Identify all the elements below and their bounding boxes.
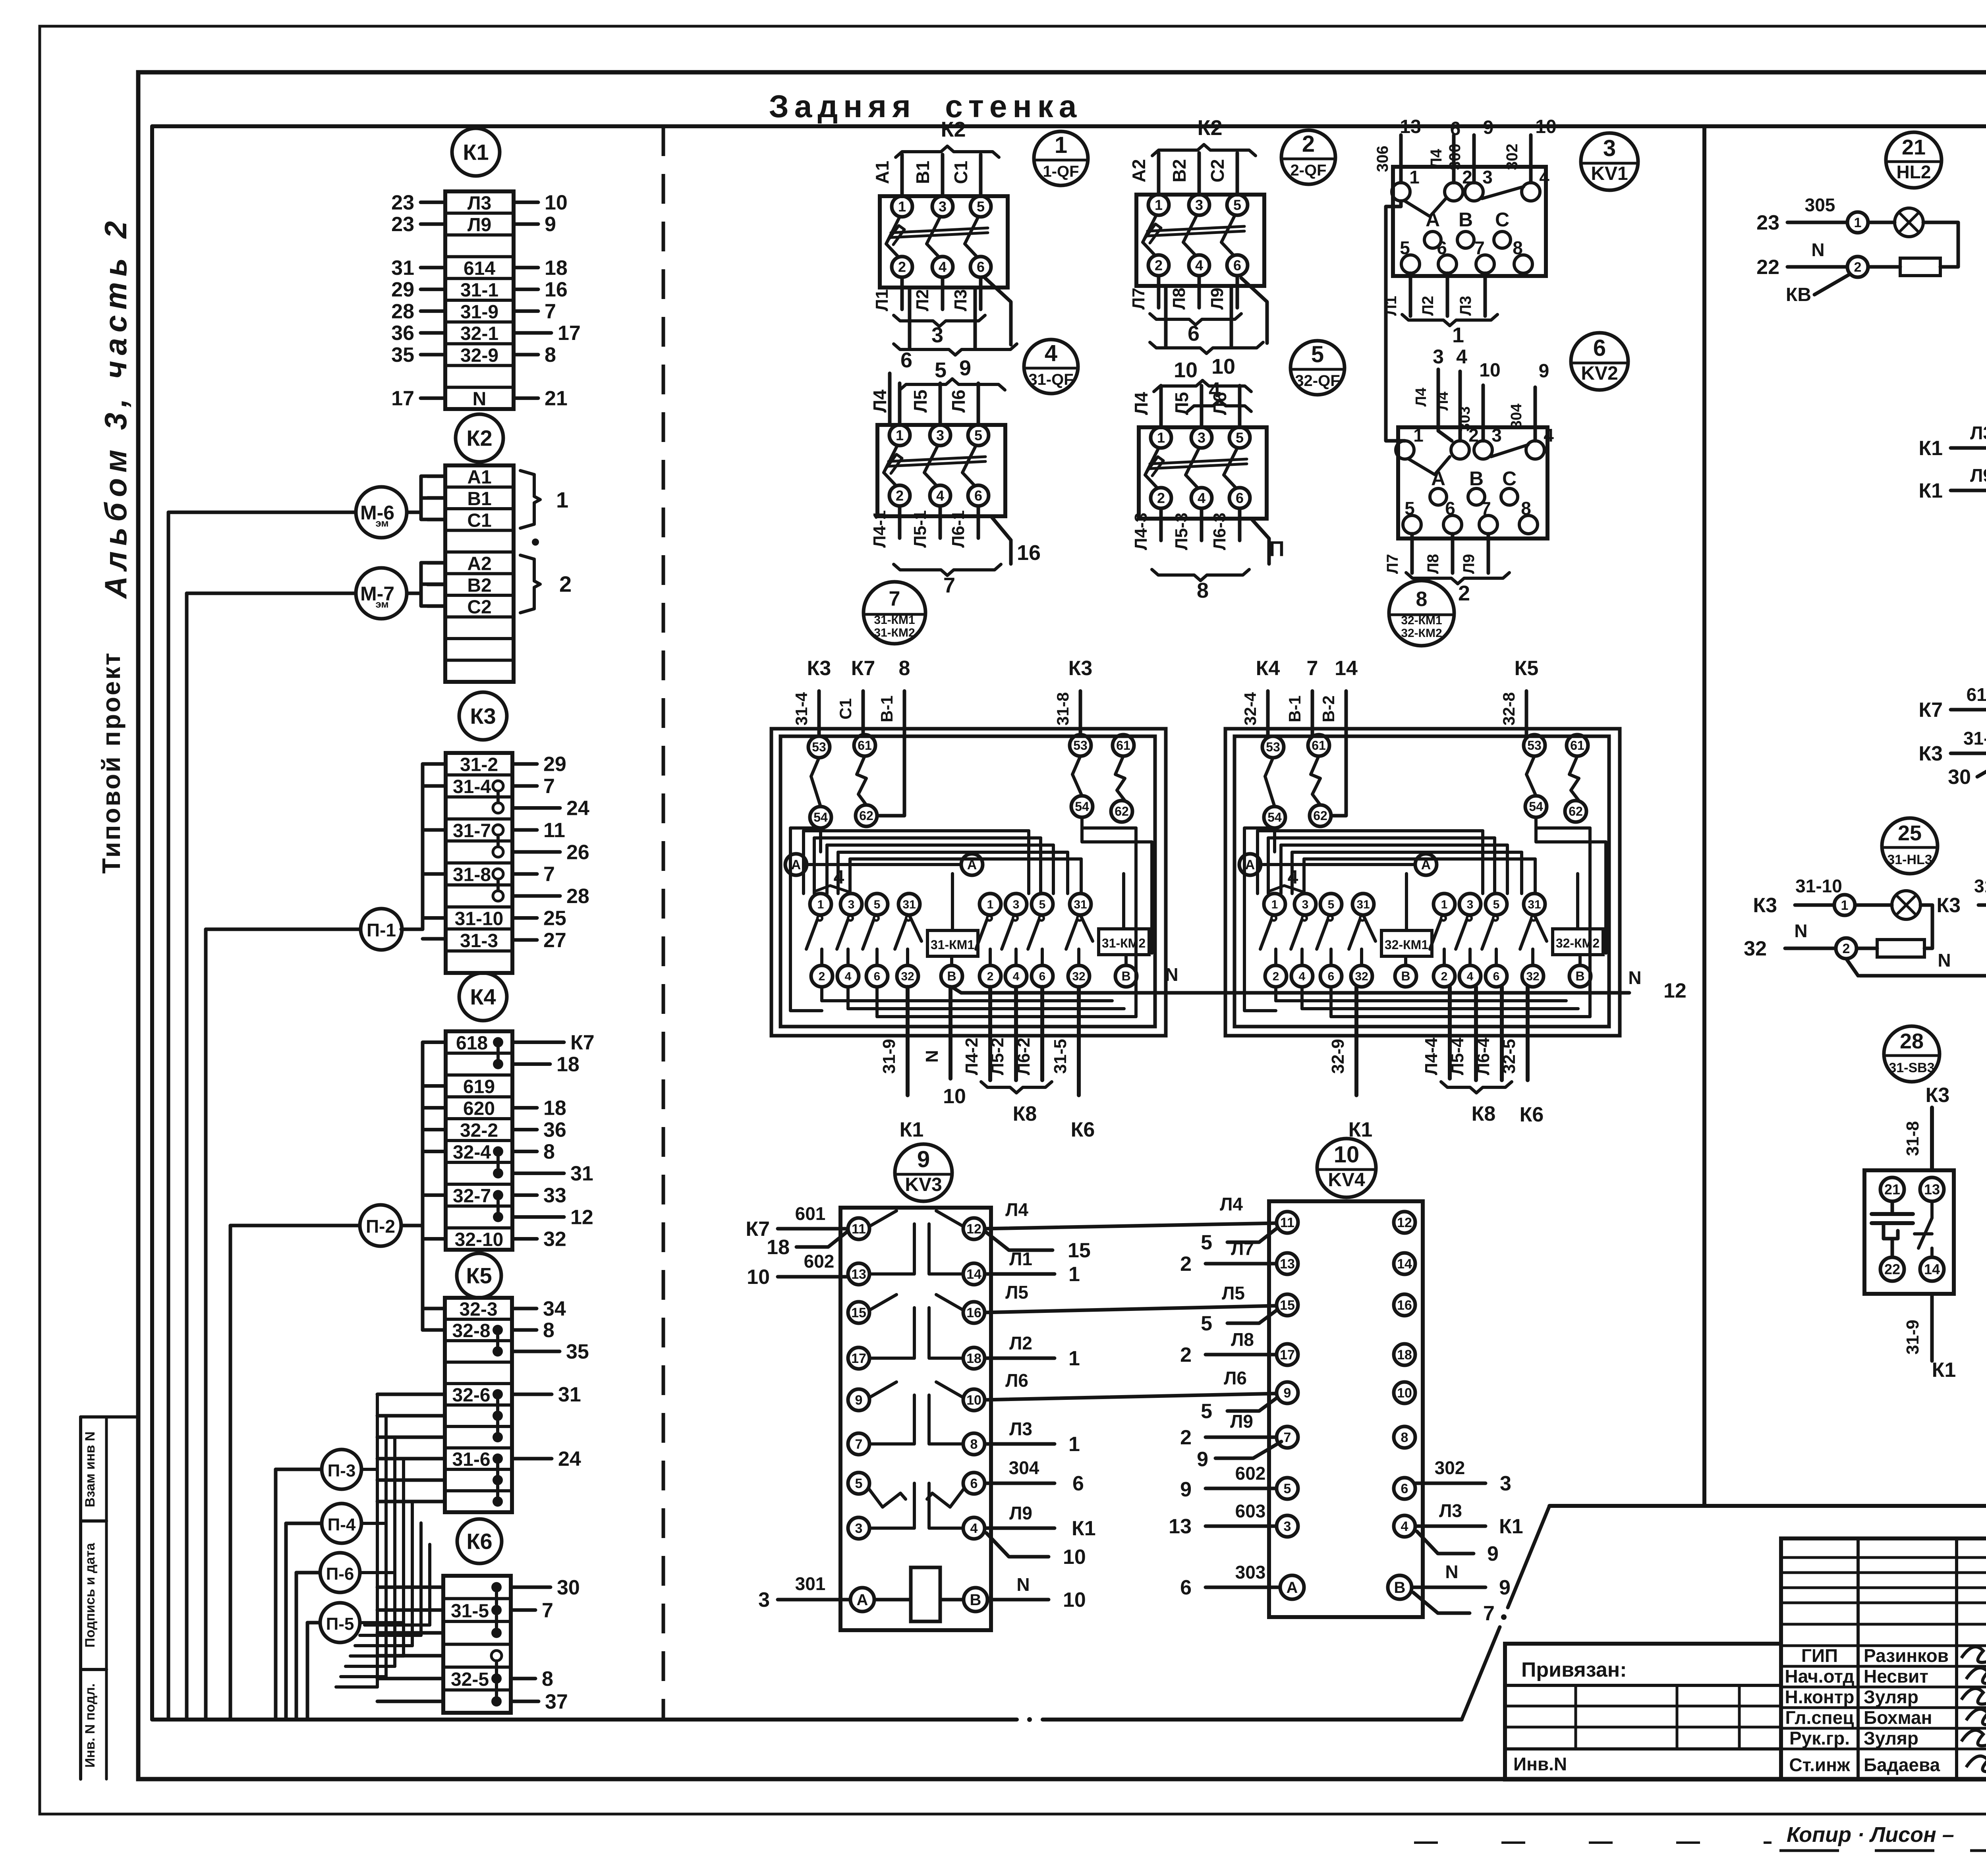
connector K6 tag [457, 1519, 502, 1563]
svg-text:13: 13 [1400, 116, 1421, 137]
svg-text:3: 3 [1198, 430, 1206, 446]
tag 8 / 32-KM1 32-KM2 [1389, 581, 1454, 646]
svg-text:4: 4 [1195, 257, 1203, 274]
svg-text:16: 16 [1397, 1298, 1412, 1313]
KV2 top pins [1396, 441, 1414, 459]
svg-text:31-8: 31-8 [1053, 692, 1072, 726]
svg-text:3: 3 [1500, 1472, 1511, 1495]
svg-text:6: 6 [1328, 970, 1335, 983]
svg-text:10: 10 [1535, 116, 1556, 137]
32 bottom bus wiring [1274, 987, 1277, 1001]
svg-text:эм: эм [375, 598, 388, 610]
svg-text:4: 4 [1401, 1519, 1408, 1534]
pushbutton bottom wire [1930, 1294, 1934, 1361]
KV1 pin1 to KV2 pin1 wire [1386, 201, 1405, 441]
svg-text:П-1: П-1 [367, 920, 396, 940]
svg-text:2: 2 [1273, 970, 1279, 983]
KV3 coil [911, 1567, 940, 1621]
svg-text:1: 1 [1068, 1263, 1080, 1286]
svg-text:Л7: Л7 [1231, 1238, 1254, 1259]
svg-text:3: 3 [758, 1588, 770, 1612]
svg-text:53: 53 [812, 740, 826, 754]
svg-text:В1: В1 [912, 161, 933, 184]
wiring maze between P connectors and K5/K6 [376, 1394, 379, 1687]
svg-text:6: 6 [874, 970, 881, 983]
32 bottom outgoing wires [1354, 987, 1358, 1095]
svg-text:А2: А2 [467, 553, 491, 574]
svg-text:Л8: Л8 [1169, 288, 1189, 309]
svg-text:619: 619 [463, 1077, 495, 1098]
svg-text:3: 3 [1433, 345, 1444, 368]
K3 left bus to P-1 [421, 764, 425, 929]
svg-text:601: 601 [795, 1203, 826, 1224]
svg-text:31-QF: 31-QF [1028, 371, 1073, 388]
svg-text:6: 6 [1493, 970, 1500, 983]
relay socket KV2 tag [1571, 333, 1628, 390]
K4 left bus to P-2 [421, 1042, 425, 1330]
svg-text:В2: В2 [467, 575, 491, 596]
svg-text:5: 5 [874, 898, 881, 911]
svg-text:В2: В2 [1169, 159, 1190, 183]
svg-text:5: 5 [1328, 898, 1335, 911]
svg-text:П-5: П-5 [326, 1614, 354, 1634]
svg-text:4: 4 [1544, 425, 1554, 446]
connector K4 tag [459, 973, 507, 1021]
svg-text:12: 12 [1663, 979, 1687, 1002]
indicator lamps 25 26 27 tags [1882, 818, 1938, 874]
svg-text:2: 2 [559, 571, 572, 596]
svg-text:4: 4 [936, 488, 944, 504]
drawing area left line [150, 126, 154, 1720]
svg-text:31-1: 31-1 [460, 280, 498, 301]
svg-text:23: 23 [1756, 211, 1779, 234]
breaker 1-QF trip bar [891, 228, 988, 233]
breaker 1-QF bottom braces [894, 315, 939, 326]
svg-text:4: 4 [1209, 378, 1221, 402]
svg-text:31-5: 31-5 [451, 1600, 489, 1621]
svg-text:В: В [947, 969, 956, 983]
svg-text:Л6-1: Л6-1 [949, 510, 968, 548]
breaker 31-QF pins top [889, 425, 910, 446]
svg-text:N: N [473, 389, 487, 410]
svg-text:С1: С1 [836, 698, 855, 720]
svg-text:2: 2 [1302, 131, 1315, 157]
svg-text:Л6-2: Л6-2 [1014, 1038, 1034, 1075]
svg-text:N: N [1794, 921, 1807, 941]
svg-text:31-2: 31-2 [460, 755, 498, 776]
svg-text:С: С [1502, 467, 1517, 490]
svg-text:9: 9 [1539, 361, 1549, 382]
svg-text:Л3: Л3 [1457, 296, 1474, 316]
svg-text:12: 12 [966, 1222, 981, 1237]
svg-text:28: 28 [391, 300, 414, 323]
svg-text:К3: К3 [1926, 1084, 1950, 1107]
breaker 2-QF bottom braces [1150, 314, 1196, 325]
lamp HL2 tag [1886, 132, 1942, 188]
circuit breaker 1-QF body [880, 196, 1008, 288]
31 aux 54 wire to bus [790, 828, 822, 1011]
svg-text:8: 8 [899, 657, 910, 680]
svg-text:Л5: Л5 [910, 390, 931, 413]
svg-text:302: 302 [1435, 1457, 1465, 1478]
32 crossover bus wiring [1261, 863, 1415, 866]
KV1 bottom wires L1 L2 L3 [1409, 273, 1412, 316]
svg-text:31: 31 [558, 1383, 581, 1406]
svg-text:30: 30 [1948, 766, 1971, 789]
svg-text:Инв.N: Инв.N [1513, 1754, 1567, 1774]
svg-text:10: 10 [1479, 360, 1500, 381]
svg-text:18: 18 [556, 1053, 580, 1076]
svg-text:32-QF: 32-QF [1295, 372, 1340, 390]
svg-text:8: 8 [542, 1668, 553, 1691]
svg-text:62: 62 [1569, 804, 1583, 818]
right brace group 2 at K2 [520, 555, 540, 613]
svg-text:N: N [1016, 1574, 1030, 1595]
svg-text:32-1: 32-1 [460, 323, 498, 344]
svg-text:305: 305 [1805, 195, 1835, 215]
31 top incoming wires [817, 691, 821, 736]
svg-text:32-5: 32-5 [451, 1669, 489, 1690]
svg-text:3: 3 [1603, 135, 1616, 161]
svg-text:Альбом 3, часть 2: Альбом 3, часть 2 [98, 216, 133, 599]
svg-text:6: 6 [977, 259, 985, 275]
svg-text:1: 1 [1409, 167, 1420, 187]
svg-text:24: 24 [566, 797, 589, 820]
svg-text:Н.контр: Н.контр [1785, 1687, 1855, 1707]
section separator (back wall / door) [1702, 126, 1706, 1506]
svg-text:С2: С2 [1207, 159, 1228, 183]
svg-text:Л4: Л4 [1131, 392, 1151, 415]
svg-text:31-3: 31-3 [460, 930, 498, 952]
svg-text:16: 16 [1017, 541, 1041, 565]
svg-text:А: А [1287, 1579, 1298, 1596]
svg-text:В: В [1121, 969, 1130, 983]
svg-text:301: 301 [795, 1573, 826, 1594]
svg-text:17: 17 [851, 1351, 866, 1366]
svg-text:2: 2 [1854, 260, 1862, 275]
svg-text:4: 4 [1198, 490, 1206, 506]
terminal block K1 [445, 191, 514, 409]
svg-text:Инв. N подл.: Инв. N подл. [83, 1683, 98, 1768]
svg-text:32: 32 [543, 1228, 566, 1251]
svg-text:32-КМ2: 32-КМ2 [1556, 936, 1600, 950]
svg-text:Несвит: Несвит [1864, 1666, 1928, 1687]
svg-text:2: 2 [1157, 490, 1165, 506]
svg-text:13: 13 [1169, 1515, 1192, 1538]
svg-text:31: 31 [391, 257, 414, 280]
svg-text:620: 620 [463, 1098, 495, 1119]
svg-text:5: 5 [1039, 898, 1046, 911]
svg-text:N: N [922, 1050, 942, 1063]
svg-text:Нач.отд: Нач.отд [1785, 1666, 1854, 1687]
breaker 31-QF contact blades [884, 446, 897, 473]
breaker 2-QF contact blades [1143, 215, 1156, 242]
svg-text:9: 9 [545, 213, 556, 236]
svg-text:25: 25 [1898, 821, 1922, 845]
svg-text:Л9: Л9 [1230, 1411, 1253, 1432]
svg-text:N: N [1165, 964, 1178, 985]
svg-text:Л6-3: Л6-3 [1210, 513, 1229, 550]
svg-text:2: 2 [1155, 257, 1163, 274]
wire M-7 to left bus [187, 592, 356, 595]
32 KM1 coil box [1381, 930, 1432, 956]
svg-text:306: 306 [1374, 146, 1391, 172]
svg-text:26: 26 [566, 841, 589, 864]
svg-text:1: 1 [1413, 425, 1424, 446]
svg-text:31-6: 31-6 [452, 1449, 490, 1470]
svg-text:6: 6 [974, 488, 982, 504]
svg-text:П-6: П-6 [326, 1564, 354, 1584]
svg-text:8: 8 [545, 344, 556, 367]
svg-text:Л9: Л9 [468, 214, 491, 235]
svg-text:А1: А1 [467, 467, 491, 488]
svg-text:В-2: В-2 [1319, 695, 1338, 722]
svg-text:К3: К3 [1068, 657, 1093, 680]
svg-text:8: 8 [1197, 579, 1209, 602]
breaker 31-QF pins bottom [889, 485, 910, 506]
svg-text:Привязан:: Привязан: [1521, 1658, 1627, 1681]
svg-text:5: 5 [1233, 197, 1241, 213]
32 contactor 1 bottom row [1265, 965, 1287, 987]
svg-text:6: 6 [1188, 322, 1200, 345]
svg-text:К1: К1 [1918, 437, 1943, 460]
svg-text:16: 16 [966, 1305, 981, 1320]
pushbutton top wire [1930, 1108, 1934, 1170]
svg-text:36: 36 [543, 1119, 566, 1142]
breaker 31-QF top brace 5 [900, 379, 952, 390]
right brace group 1 at K2 [520, 471, 540, 528]
svg-text:9: 9 [1483, 117, 1494, 138]
svg-text:Л9: Л9 [1009, 1503, 1032, 1523]
svg-text:1: 1 [987, 898, 994, 911]
breaker 32-QF bottom braces [1152, 569, 1201, 581]
svg-text:31-5: 31-5 [1051, 1039, 1070, 1074]
svg-text:К6: К6 [466, 1529, 492, 1554]
32 KM2 coil box [1553, 929, 1603, 955]
lamp 31-HL2 circuit [1978, 903, 1986, 907]
svg-text:21: 21 [545, 387, 568, 410]
circuit breaker 31-QF body [877, 425, 1005, 516]
31 bottom bus wiring [820, 987, 823, 1001]
svg-text:В: В [1575, 969, 1584, 983]
breaker 1-QF pins top [892, 196, 912, 217]
svg-text:К6: К6 [1520, 1103, 1544, 1126]
lamp 31-HL3 circuit [1795, 903, 1834, 907]
K5 rows 1-2 bus to P-2 bus [423, 1307, 445, 1310]
svg-text:5: 5 [1201, 1231, 1212, 1254]
breaker 32-QF pins bottom [1151, 488, 1171, 508]
terminal block K5 [445, 1298, 512, 1512]
svg-text:5: 5 [1236, 430, 1244, 446]
stamp boxes on left margin [81, 1415, 138, 1419]
svg-text:Бадаева: Бадаева [1864, 1754, 1940, 1775]
svg-text:31-КМ2: 31-КМ2 [1102, 936, 1146, 950]
svg-text:15: 15 [1068, 1239, 1091, 1262]
svg-text:22: 22 [1884, 1261, 1900, 1278]
svg-text:29: 29 [391, 278, 414, 301]
KV2 contact blades [1408, 457, 1450, 475]
svg-text:32: 32 [1072, 970, 1085, 983]
KV3 pin circles [848, 1218, 869, 1239]
svg-text:602: 602 [804, 1251, 835, 1272]
svg-text:54: 54 [813, 810, 828, 824]
svg-text:10: 10 [1174, 358, 1198, 382]
svg-text:17: 17 [1280, 1347, 1295, 1363]
lamp HL2 circuit [1787, 221, 1847, 224]
31 contactor 2 poles [979, 894, 1001, 915]
signature scribbles [1961, 1647, 1986, 1662]
breaker 1-QF pins bottom [892, 257, 912, 277]
svg-text:N: N [1938, 950, 1951, 971]
circuit breaker 2-QF body [1136, 195, 1264, 286]
svg-text:2: 2 [1843, 941, 1850, 956]
svg-text:62: 62 [1313, 809, 1327, 823]
31 crossover bus wiring [807, 863, 961, 866]
svg-text:эм: эм [375, 517, 388, 529]
31 KM2 coil box [1099, 929, 1149, 955]
svg-text:6: 6 [1236, 490, 1244, 506]
svg-text:10: 10 [1211, 355, 1235, 378]
svg-text:К1: К1 [463, 140, 489, 165]
svg-text:5: 5 [855, 1476, 863, 1491]
svg-text:31-9: 31-9 [879, 1039, 899, 1074]
svg-text:К8: К8 [1013, 1102, 1037, 1125]
svg-text:Ст.инж: Ст.инж [1789, 1754, 1850, 1775]
svg-text:10: 10 [943, 1085, 966, 1108]
svg-text:К1: К1 [1499, 1515, 1523, 1538]
svg-text:30: 30 [557, 1576, 580, 1599]
svg-text:33: 33 [543, 1184, 566, 1207]
svg-text:9: 9 [917, 1146, 930, 1172]
svg-text:Л5: Л5 [1005, 1282, 1028, 1303]
svg-text:1: 1 [1068, 1347, 1080, 1370]
svg-text:9: 9 [855, 1393, 863, 1408]
svg-text:К2: К2 [941, 118, 966, 141]
svg-text:Л9: Л9 [1970, 465, 1986, 486]
svg-text:KV3: KV3 [905, 1174, 942, 1195]
svg-text:6: 6 [1180, 1576, 1192, 1599]
svg-text:12: 12 [570, 1206, 593, 1229]
switch SA1 left wires [1951, 446, 1986, 450]
long wire L6 KV3.10 to KV4.9 [985, 1393, 1277, 1400]
svg-text:3: 3 [939, 199, 947, 215]
KV1 contact blades [1404, 199, 1446, 216]
svg-text:25: 25 [543, 907, 566, 930]
relay KV3 body [840, 1208, 991, 1630]
contactor group 31 outer box [771, 729, 1166, 1036]
svg-text:8: 8 [970, 1437, 978, 1452]
svg-text:18: 18 [966, 1351, 981, 1366]
svg-text:Л6: Л6 [1224, 1368, 1247, 1388]
svg-text:28: 28 [1900, 1029, 1924, 1053]
breaker 32-QF tag [1291, 341, 1345, 395]
31 contactor 1 poles [810, 894, 831, 915]
svg-text:8: 8 [1401, 1430, 1408, 1445]
svg-text:В: В [970, 1591, 981, 1609]
svg-text:28: 28 [566, 885, 589, 908]
maze link P-6 [360, 1571, 394, 1574]
svg-text:31-SB3: 31-SB3 [1889, 1060, 1934, 1075]
switch SA2-1 extra stub 30 [1977, 759, 1986, 777]
breaker 1-QF tag [1034, 131, 1088, 185]
svg-text:Копир · Лисон –: Копир · Лисон – [1787, 1823, 1954, 1847]
svg-text:303: 303 [1235, 1562, 1266, 1583]
svg-text:21: 21 [1884, 1181, 1900, 1198]
KV2 top wires and labels [1437, 369, 1440, 431]
svg-text:304: 304 [1009, 1457, 1039, 1478]
svg-text:4: 4 [834, 867, 844, 888]
svg-text:К7: К7 [570, 1031, 595, 1054]
svg-text:61: 61 [858, 738, 872, 753]
31 contactor 1 bottom row [811, 965, 833, 987]
svg-text:2: 2 [819, 970, 825, 983]
svg-text:3: 3 [1491, 425, 1502, 446]
svg-text:6: 6 [1401, 1481, 1408, 1496]
svg-text:4: 4 [1539, 167, 1549, 187]
svg-text:Зуляр: Зуляр [1864, 1728, 1918, 1749]
svg-text:3: 3 [1302, 898, 1309, 911]
svg-text:КВ: КВ [1786, 284, 1811, 305]
31 contactor 2 bottom row [979, 965, 1001, 987]
svg-text:3: 3 [1013, 898, 1020, 911]
breaker 2-QF pins top [1148, 195, 1169, 215]
31 aux contact 53-54 [808, 736, 830, 758]
svg-text:9: 9 [1180, 1478, 1192, 1501]
svg-text:А: А [791, 857, 801, 872]
svg-text:5: 5 [1311, 342, 1324, 367]
svg-text:С1: С1 [467, 510, 491, 531]
svg-text:К5: К5 [466, 1263, 492, 1288]
svg-text:Л5-2: Л5-2 [988, 1038, 1007, 1075]
svg-text:3: 3 [1195, 197, 1203, 213]
svg-text:С: С [1495, 208, 1509, 231]
31 phase circle A left [785, 854, 807, 875]
svg-text:7: 7 [1483, 1602, 1495, 1625]
svg-text:29: 29 [543, 753, 566, 776]
31 aux contact 61-62 right [1113, 735, 1134, 756]
svg-text:Л4-4: Л4-4 [1422, 1037, 1441, 1075]
connector K2 tag [456, 414, 503, 462]
svg-text:10: 10 [1397, 1386, 1412, 1401]
drawing area top line [152, 124, 1986, 128]
connector P-2 [360, 1205, 401, 1246]
svg-text:32-4: 32-4 [1241, 692, 1260, 726]
svg-text:31: 31 [1356, 898, 1370, 911]
wires P-3..P-5 to left buses [276, 1468, 322, 1471]
svg-text:602: 602 [1235, 1463, 1266, 1484]
svg-text:35: 35 [391, 344, 414, 367]
svg-text:4: 4 [970, 1521, 978, 1536]
svg-text:П-3: П-3 [328, 1461, 356, 1480]
svg-text:1: 1 [1157, 430, 1165, 446]
svg-text:Подпись и дата: Подпись и дата [83, 1542, 98, 1648]
svg-text:2-QF: 2-QF [1290, 162, 1326, 179]
svg-text:Л3: Л3 [1970, 423, 1986, 443]
svg-text:Л9: Л9 [1460, 554, 1478, 574]
svg-text:В1: В1 [467, 488, 491, 510]
svg-text:618: 618 [456, 1033, 488, 1054]
breaker 32-QF trip bar [1150, 459, 1247, 464]
switch SA2-1 left wires [1951, 708, 1986, 712]
svg-text:9: 9 [959, 356, 971, 380]
breaker 32-QF pins top [1151, 427, 1171, 448]
svg-text:17: 17 [558, 322, 581, 345]
31 phase circle A right [961, 854, 983, 875]
KV3 left incoming wires [778, 1227, 848, 1231]
svg-text:54: 54 [1267, 810, 1282, 824]
svg-text:32: 32 [1526, 970, 1539, 983]
svg-text:18: 18 [543, 1097, 566, 1120]
